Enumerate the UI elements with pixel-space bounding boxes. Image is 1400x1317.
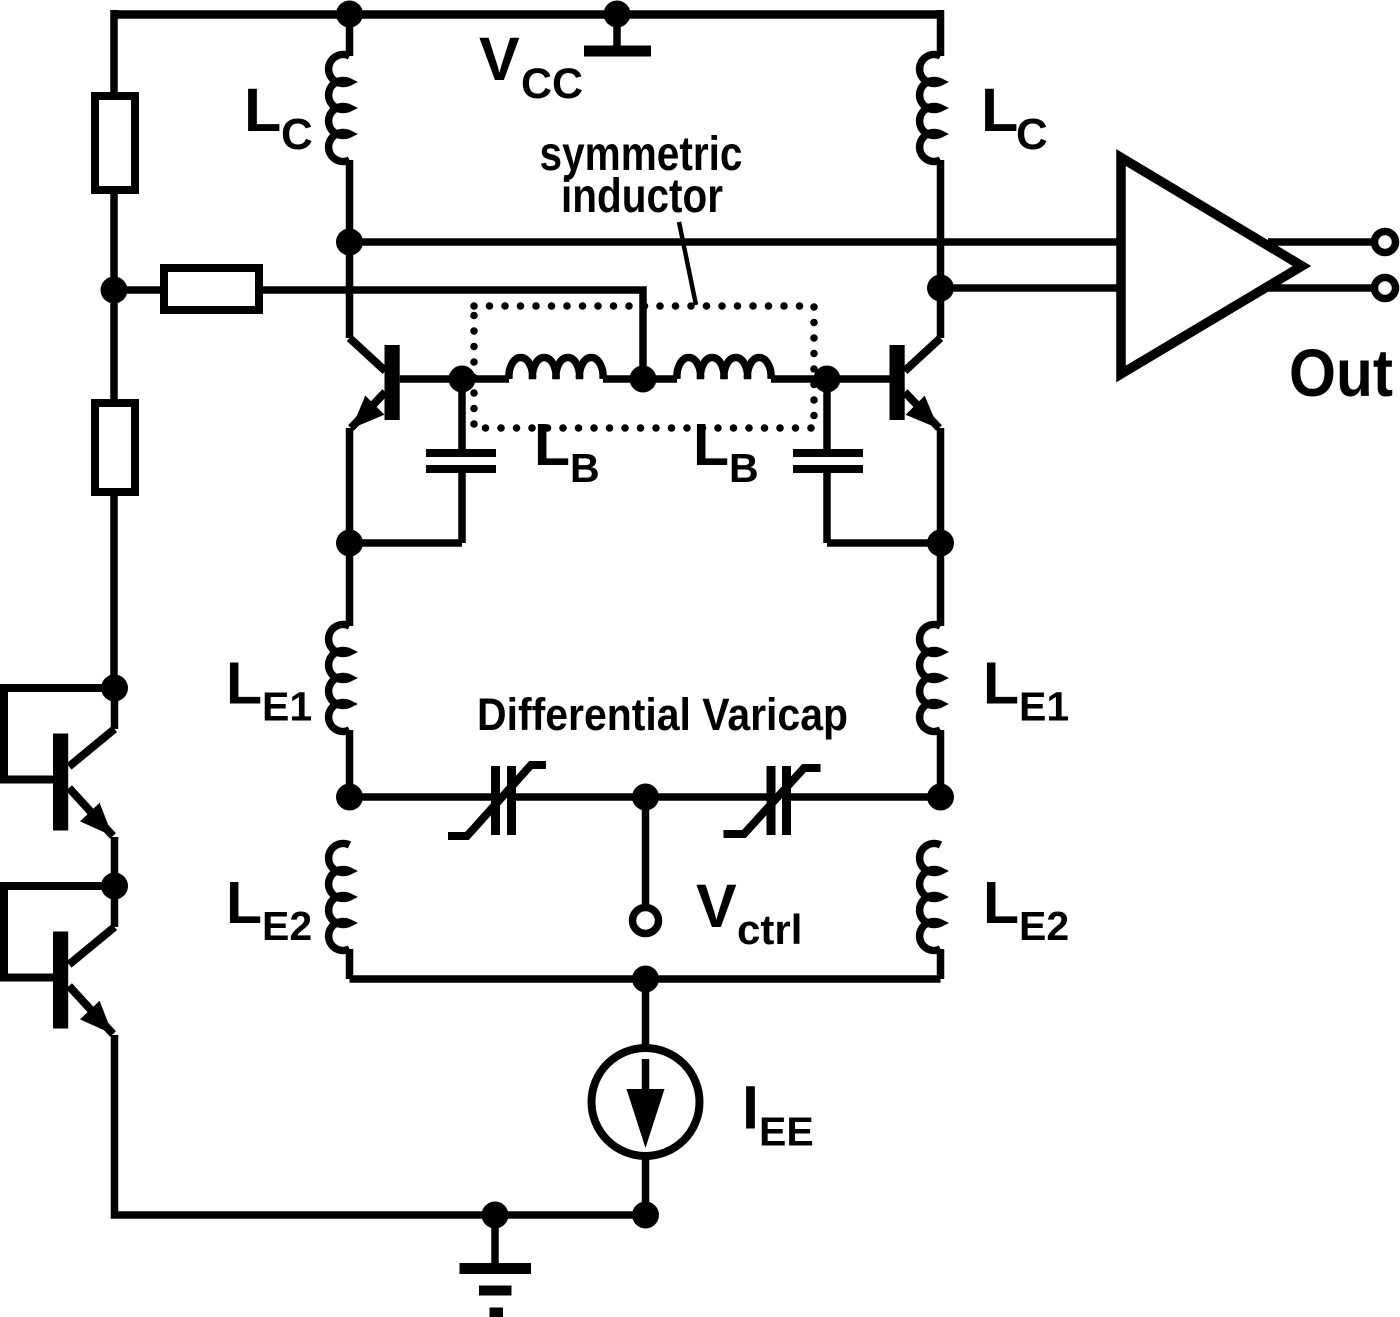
svg-text:L: L (983, 651, 1019, 717)
svg-text:E1: E1 (262, 684, 312, 730)
wire: right LC to Q2 collector (937, 160, 945, 338)
svg-text:C: C (1016, 110, 1048, 159)
svg-text:B: B (570, 445, 600, 491)
varicap D2 (right) (724, 766, 821, 835)
op-amp U1 output buffer triangle (1121, 158, 1302, 375)
node: left output (wire A tap) (336, 229, 363, 256)
wire: VCC top rail (114, 10, 940, 19)
label LE1 right (983, 651, 1069, 730)
svg-text:L: L (693, 412, 729, 478)
node: left varicap junction (336, 784, 363, 811)
transistor Q3 (diode-connected) (4, 688, 115, 836)
wire: buffer output top (1268, 238, 1372, 246)
label IEE (742, 1074, 814, 1155)
inductor LE1 right coil (920, 624, 941, 731)
node: C2 to right emitter rail (927, 530, 954, 557)
label Out (1289, 336, 1393, 411)
terminal: output top circle (1375, 232, 1396, 253)
wire: left LC stub from top rail (346, 14, 354, 56)
label LB left (534, 412, 600, 491)
transistor Q2 (right NPN) (827, 338, 941, 429)
power VCC supply symbol (584, 14, 651, 51)
svg-text:V: V (696, 872, 737, 940)
label LE1 left (226, 651, 312, 730)
node: bottom rail center (632, 966, 659, 993)
wire: LE2 left to bottom rail (346, 949, 354, 979)
node: top rail / left LC (336, 1, 363, 28)
varicap D1 (left) (448, 765, 546, 836)
resistor R2 (95, 403, 135, 492)
node: Q4 collector/base tie (101, 873, 128, 900)
svg-text:L: L (226, 870, 262, 936)
node: ground tap (482, 1202, 509, 1229)
wire: left node to varicap D1 (350, 793, 492, 801)
label: Differential Varicap (477, 689, 848, 740)
node: right base / LB junction (814, 366, 841, 393)
label LC right (981, 76, 1048, 159)
node: ground rail / IEE (632, 1202, 659, 1229)
transistor Q1 (left, mirrored NPN) (350, 338, 463, 429)
wire: left LC to Q1 collector (346, 160, 354, 338)
inductor LC right coil (920, 54, 941, 161)
svg-text:L: L (244, 76, 281, 144)
wire A: left output to buffer top input (350, 238, 1122, 246)
wire: buffer output bottom (1268, 284, 1372, 292)
node: right output tap (927, 275, 954, 302)
node: Q3 collector/base tie (101, 675, 128, 702)
wire: Q1 emitter rail down (346, 428, 354, 626)
svg-text:L: L (981, 76, 1018, 144)
svg-text:I: I (742, 1074, 759, 1142)
terminal: output bottom circle (1375, 278, 1396, 299)
inductor LE1 left coil (329, 625, 350, 732)
resistor R1 (95, 96, 135, 190)
svg-text:E2: E2 (1019, 903, 1069, 949)
node: symmetric inductor center tap (630, 366, 657, 393)
node: right varicap junction (927, 784, 954, 811)
inductor LB right coil (677, 358, 771, 379)
wire: LE1 left to varicap node (346, 730, 354, 797)
node: varicap center (Vctrl) (632, 784, 659, 811)
svg-text:EE: EE (759, 1109, 814, 1155)
label: symmetric inductor (540, 128, 743, 223)
symmetric inductor dotted outline (474, 306, 814, 428)
wire: Q2 emitter rail down (937, 428, 945, 626)
svg-text:E1: E1 (1019, 684, 1069, 730)
svg-text:E2: E2 (262, 903, 312, 949)
wire: bottom rail to current source (642, 979, 650, 1048)
resistor R3 (base bias) (164, 268, 259, 310)
wire: LB2 to right base node (771, 375, 827, 383)
capacitor C1 (left cross-coupling) (350, 379, 497, 543)
svg-text:V: V (479, 25, 520, 93)
wire: LB1 to center tap to LB2 (603, 375, 677, 383)
wire: center node to varicap D2 (646, 793, 768, 801)
wire: left bias rail (110, 10, 118, 688)
wire: oscillator bottom rail (350, 975, 941, 983)
node: top rail / VCC stub (604, 1, 631, 28)
svg-text:C: C (281, 110, 313, 159)
svg-text:B: B (729, 445, 759, 491)
node: left base / LB junction (449, 366, 476, 393)
svg-text:L: L (534, 412, 570, 478)
node: C1 to left emitter rail (336, 530, 363, 557)
svg-text:inductor: inductor (561, 170, 723, 223)
wire: current source to ground rail (642, 1156, 650, 1215)
label LE2 right (983, 870, 1069, 949)
svg-text:L: L (226, 651, 262, 717)
wire: ground rail (bias return) (115, 1035, 646, 1215)
inductor LE2 left coil (329, 844, 350, 951)
wire: D2 to right varicap node (791, 793, 941, 801)
label VCC (479, 25, 583, 108)
wire: node to LB1 (462, 375, 509, 383)
wire B: bias resistor to symmetric-inductor center tap (259, 290, 643, 379)
transistor Q4 (diode-connected) (4, 886, 115, 1034)
svg-text:Differential Varicap: Differential Varicap (477, 689, 848, 740)
wire: LE1 right to varicap node (937, 730, 945, 797)
node: bias divider tap (101, 277, 128, 304)
wire: LE2 right to bottom rail (937, 949, 945, 979)
svg-text:L: L (983, 870, 1019, 936)
wire: right LC stub from top rail (937, 10, 945, 56)
inductor LB left coil (509, 358, 603, 379)
wire: Vctrl stub (642, 797, 650, 904)
wire: Q3 emitter to Q4 (111, 837, 119, 886)
inductor LE2 right coil (920, 844, 941, 951)
svg-text:Out: Out (1289, 336, 1393, 411)
current source IEE (592, 1048, 700, 1156)
terminal: Vctrl open circle (633, 908, 659, 934)
label Vctrl (696, 872, 802, 953)
inductor LC left coil (329, 54, 350, 161)
svg-text:ctrl: ctrl (737, 906, 802, 953)
wire: right output to buffer bottom input (941, 284, 1122, 292)
wire: D1 to center node (516, 793, 646, 801)
label LB right (693, 412, 759, 491)
ground symbol (460, 1215, 532, 1313)
capacitor C2 (right cross-coupling) (793, 379, 941, 543)
wire: bias tap to horizontal resistor (114, 286, 164, 294)
leader line from label to dotted box (679, 222, 696, 305)
label LE2 left (226, 870, 312, 949)
svg-text:CC: CC (521, 60, 583, 108)
label LC left (244, 76, 313, 159)
